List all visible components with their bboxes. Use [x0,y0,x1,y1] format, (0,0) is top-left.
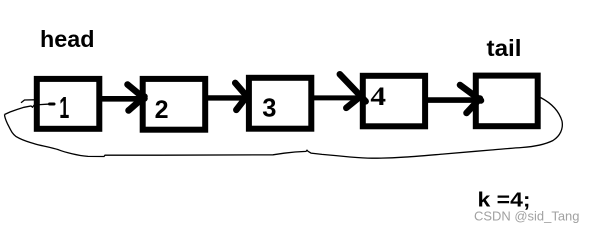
svg-text:2: 2 [155,96,169,124]
arrow 4 to 5 : head [460,85,481,113]
svg-text:3: 3 [262,95,276,123]
arrow 1 to 2 : shaft [101,96,142,102]
svg-text:tail: tail [487,35,522,61]
svg-text:4: 4 [370,82,386,111]
arrow 4 to 5 : shaft [427,97,478,103]
arrow 3 to 4 : shaft [312,95,360,100]
svg-text:1: 1 [59,91,69,125]
arrow 2 to 3 : head [235,83,248,110]
arrow 1 to 2 : head [128,85,145,111]
svg-text:CSDN @sid_Tang: CSDN @sid_Tang [474,209,580,224]
loop arrow shaft into box 1 [5,104,54,115]
node box 4 [363,76,425,127]
loop arrow upper barb [21,100,40,103]
arrow 2 to 3 : shaft [207,95,245,100]
stray pencil dot near box 4 [425,104,428,107]
node box 2 [143,79,206,130]
svg-text:head: head [40,26,95,52]
node box 3 [249,78,311,129]
node box 5 (tail, empty) [476,76,538,127]
node box 1 [37,79,100,129]
loop arrow tip blob inside box 1 [50,103,55,106]
hand-drawn loop wire from tail box back to box 1 [5,98,563,159]
arrow 3 to 4 : head [340,74,366,108]
